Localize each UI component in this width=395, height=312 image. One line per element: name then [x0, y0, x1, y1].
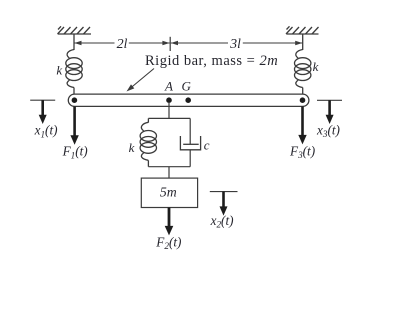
dimension line 2l — [74, 42, 170, 44]
dimension tick — [169, 37, 171, 51]
wire: right spring to bar — [302, 88, 304, 95]
wire: left spring to bar — [73, 88, 75, 95]
wire: frame to mass — [168, 167, 170, 178]
svg-text:k: k — [56, 63, 62, 78]
displacement ref x2 — [210, 191, 238, 193]
svg-text:2l: 2l — [117, 36, 128, 52]
svg-text:G: G — [182, 79, 192, 94]
frame bottom bar — [148, 166, 190, 168]
fixed support (left) — [58, 26, 92, 34]
node A — [166, 97, 172, 103]
spring k (right) — [295, 50, 311, 88]
svg-text:A: A — [164, 79, 173, 94]
svg-text:Rigid bar, mass = 2m: Rigid bar, mass = 2m — [145, 53, 278, 69]
svg-text:5m: 5m — [160, 184, 177, 199]
node G — [185, 97, 191, 103]
wire: right support to spring — [302, 34, 304, 50]
spring k (middle) — [147, 118, 149, 122]
pivot dot (left end) — [72, 97, 78, 103]
force F3 — [301, 107, 304, 136]
fixed support (right) — [286, 26, 319, 34]
svg-text:x1(t): x1(t) — [34, 123, 58, 140]
pivot dot (right end) — [300, 97, 306, 103]
force F2 — [168, 208, 171, 227]
wire: node A down to frame — [168, 102, 170, 118]
displacement ref x1 — [30, 99, 55, 101]
force F1 — [73, 107, 76, 137]
frame top bar — [148, 117, 190, 119]
svg-text:k: k — [129, 140, 135, 155]
svg-text:x2(t): x2(t) — [210, 213, 234, 230]
damper c — [189, 118, 191, 144]
spring k (left) — [66, 50, 82, 88]
svg-text:c: c — [204, 137, 210, 152]
svg-text:3l: 3l — [229, 36, 241, 52]
rigid bar — [68, 94, 309, 106]
wire: left support to spring — [73, 34, 75, 50]
svg-text:x3(t): x3(t) — [316, 122, 340, 139]
leader arrow to bar — [130, 69, 154, 89]
displacement ref x3 — [317, 99, 342, 101]
svg-text:F1(t): F1(t) — [62, 144, 88, 161]
svg-text:F3(t): F3(t) — [289, 143, 315, 160]
svg-text:k: k — [313, 59, 319, 74]
dimension line 3l — [171, 42, 303, 44]
mass 5m — [141, 178, 197, 207]
svg-text:F2(t): F2(t) — [155, 235, 181, 252]
